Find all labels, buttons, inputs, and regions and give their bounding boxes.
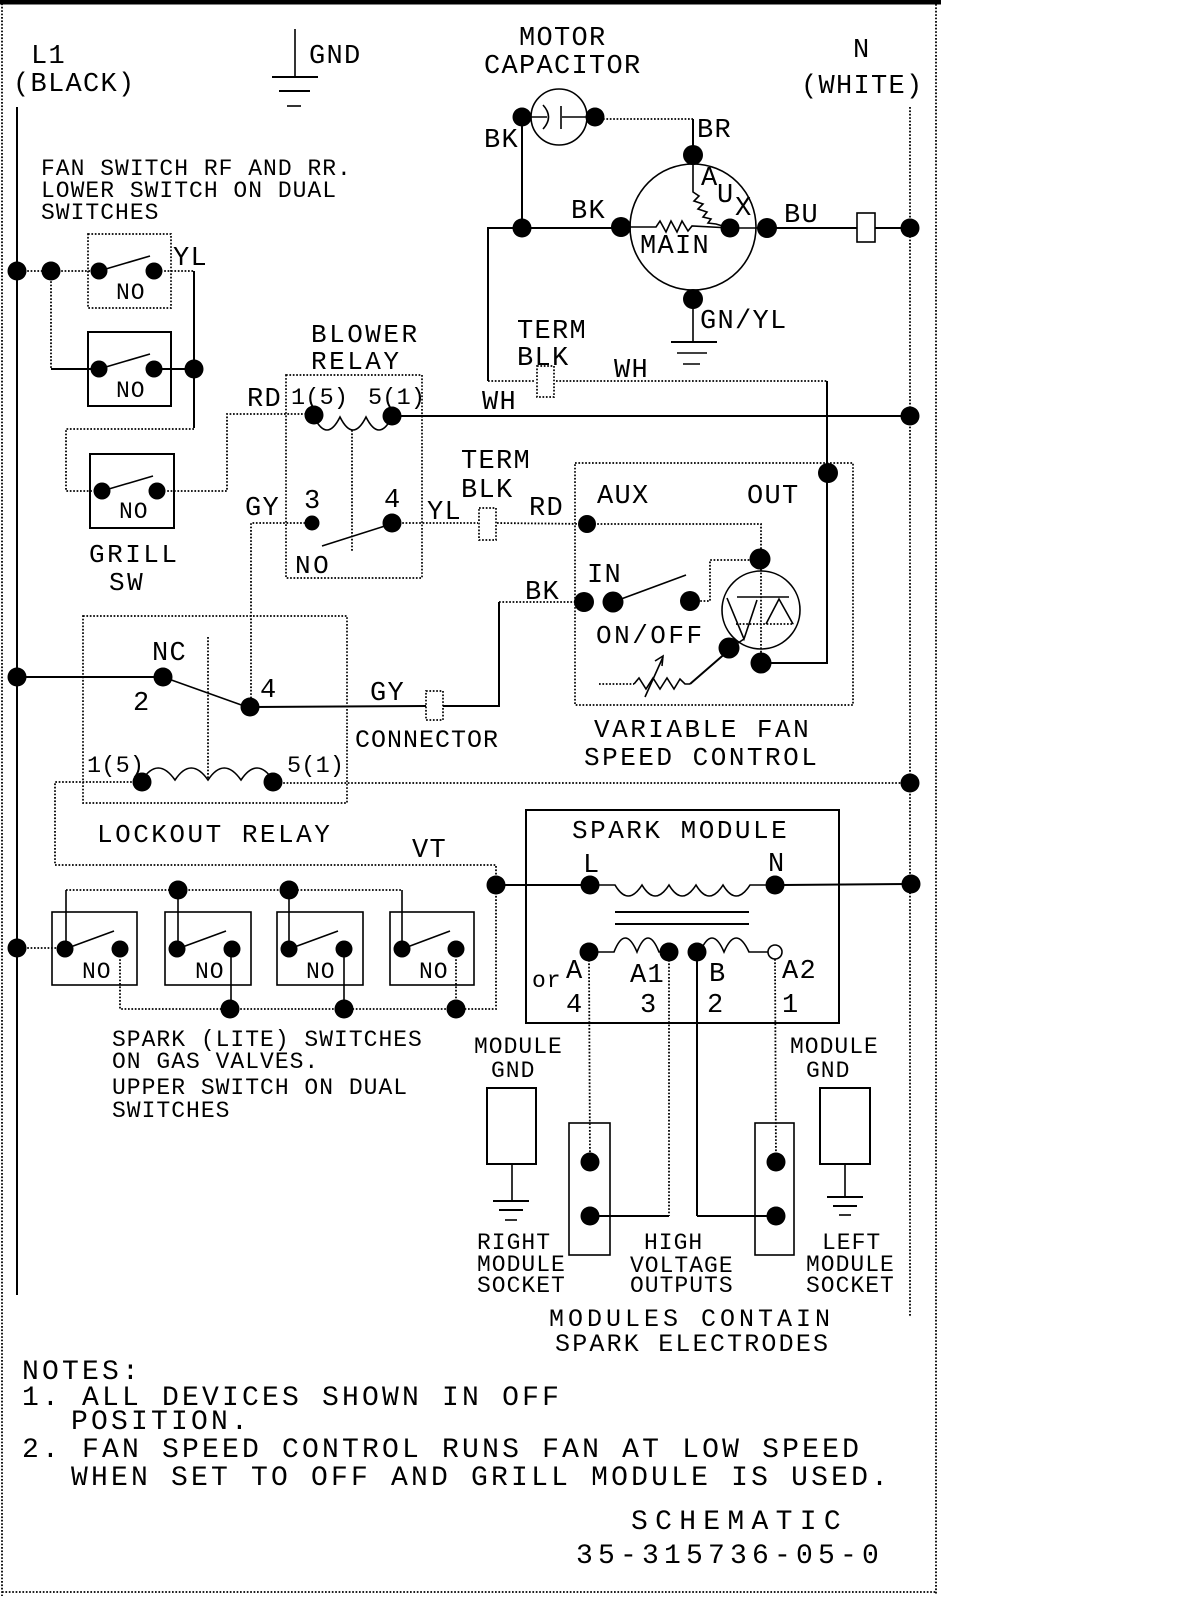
wire rail drop to switch 2 <box>177 890 179 949</box>
svg-text:3: 3 <box>304 487 322 517</box>
potentiometer R1 lead <box>599 683 634 685</box>
node S1 right terminal <box>146 263 163 280</box>
node VT junction spark module <box>487 876 506 895</box>
svg-text:SWITCHES: SWITCHES <box>41 200 159 226</box>
node triac gate terminal <box>719 638 740 659</box>
wire pin A1 down <box>668 960 670 1216</box>
svg-text:(WHITE): (WHITE) <box>801 72 924 102</box>
wire BK junction left and down to term blk <box>488 228 522 381</box>
svg-text:SW: SW <box>109 568 145 598</box>
node pin A <box>580 943 599 962</box>
svg-text:2: 2 <box>707 991 725 1021</box>
wire N vertical bus <box>909 107 911 1316</box>
svg-text:SCHEMATIC: SCHEMATIC <box>631 1507 848 1538</box>
wire BK in <box>499 601 585 603</box>
svg-text:NO: NO <box>419 959 449 985</box>
node N bus junction spark module <box>902 875 921 894</box>
svg-text:NO: NO <box>119 499 149 525</box>
wire WH from pin 5(1) to N bus <box>392 415 910 417</box>
node rail junction 3 <box>280 881 299 900</box>
svg-text:VT: VT <box>412 836 447 866</box>
wire lockout 5(1) to N bus <box>273 782 910 784</box>
svg-text:SPEED CONTROL: SPEED CONTROL <box>584 743 819 773</box>
switch S7 spark switch 4 box <box>390 912 474 985</box>
svg-text:B: B <box>709 960 727 990</box>
svg-text:4: 4 <box>260 676 278 706</box>
potentiometer arrow <box>645 657 663 697</box>
svg-text:BK: BK <box>484 126 519 156</box>
node lockout coil pin 5(1) <box>264 773 283 792</box>
inductor blower relay coil <box>314 417 392 430</box>
svg-text:BLK: BLK <box>517 344 570 374</box>
inductor spark module primary <box>590 885 767 896</box>
svg-text:GN/YL: GN/YL <box>700 307 788 337</box>
svg-text:2. FAN SPEED CONTROL RUNS FAN: 2. FAN SPEED CONTROL RUNS FAN AT LOW SPE… <box>22 1435 862 1466</box>
resistor MAIN winding <box>621 221 730 232</box>
inductor secondary left <box>597 938 669 952</box>
node S7 left terminal <box>394 941 411 958</box>
triac triangle right <box>766 599 793 624</box>
node pin A1 <box>660 943 679 962</box>
svg-text:or: or <box>532 968 562 994</box>
svg-text:BLOWER: BLOWER <box>311 320 420 350</box>
node branch junction <box>42 262 61 281</box>
wire BR corner down to motor <box>692 119 694 150</box>
wire motor frame to ground <box>692 306 694 341</box>
wire motor BU to resistor plug <box>767 227 857 229</box>
node left socket upper pin <box>767 1153 786 1172</box>
relay K2 lockout relay box <box>83 616 347 803</box>
node right socket lower pin <box>581 1207 600 1226</box>
svg-text:SOCKET: SOCKET <box>806 1273 895 1299</box>
node AUX terminal <box>578 515 596 533</box>
node blower pin 4 <box>383 514 402 533</box>
node S4 left terminal <box>57 941 74 958</box>
svg-text:WH: WH <box>482 388 517 418</box>
svg-text:BK: BK <box>525 578 560 608</box>
node S3 left terminal <box>94 483 111 500</box>
wire L1 to spark switch 1 <box>17 947 65 949</box>
node spark module N pin <box>766 876 785 895</box>
wire blower armature link <box>351 430 353 552</box>
wire pin B down <box>696 960 698 1216</box>
wire S6 lever <box>289 931 338 949</box>
wire lockout lever <box>163 677 247 707</box>
node S2 right terminal <box>146 361 163 378</box>
wire RD term blk to AUX <box>497 523 587 524</box>
svg-text:MAIN: MAIN <box>640 232 710 262</box>
node S5 left terminal <box>169 941 186 958</box>
wire pot to gate <box>690 651 728 684</box>
node lockout coil pin 1(5) <box>133 773 152 792</box>
wire BK junction to motor MAIN <box>522 227 621 229</box>
inductor secondary right <box>697 938 768 952</box>
svg-text:4: 4 <box>566 991 584 1021</box>
svg-text:GND: GND <box>491 1058 535 1084</box>
wire rail drop to switch 3 <box>288 890 290 949</box>
node capacitor right terminal <box>586 108 605 127</box>
socket left module socket box <box>755 1123 794 1255</box>
wire L1 to fan switch 1 <box>17 270 99 272</box>
inductor lockout relay coil <box>142 768 273 780</box>
wire spark output rail <box>120 885 496 1009</box>
wire triac gate <box>729 639 744 649</box>
svg-text:NO: NO <box>295 551 331 581</box>
svg-text:POSITION.: POSITION. <box>71 1407 251 1438</box>
svg-text:GND: GND <box>309 42 362 72</box>
svg-text:GY: GY <box>370 679 405 709</box>
wire triac bottom to OUT <box>761 473 827 663</box>
svg-text:GY: GY <box>245 494 280 524</box>
node spark module L pin <box>581 876 600 895</box>
wire lockout armature link <box>207 637 209 780</box>
switch S6 spark switch 3 box <box>277 912 363 985</box>
svg-text:U: U <box>717 181 735 211</box>
capacitor C1 motor capacitor <box>531 89 587 145</box>
page border right <box>935 4 937 1594</box>
svg-text:GRILL: GRILL <box>89 540 180 570</box>
wire S1 out to YL corner <box>154 270 194 272</box>
node output rail junction 2 <box>221 1000 240 1019</box>
wire VT from lockout 1(5) <box>55 782 496 885</box>
wire S2 lever <box>99 354 150 369</box>
ground right module ground <box>827 1196 863 1198</box>
node right socket upper pin <box>581 1153 600 1172</box>
wire connector up to speed control IN <box>443 602 499 706</box>
node L1 junction spark row <box>8 939 27 958</box>
node S2 left terminal <box>91 361 108 378</box>
svg-text:ON/OFF: ON/OFF <box>596 621 705 651</box>
node output rail junction 4 <box>447 1000 466 1019</box>
node S7 right terminal <box>448 941 465 958</box>
node L1 junction upper <box>8 262 27 281</box>
wire A1 to right socket lower pin <box>598 1215 669 1217</box>
wire right plate to ground <box>844 1164 846 1196</box>
wire pin A down to right socket <box>589 960 590 1162</box>
node left socket lower pin <box>767 1207 786 1226</box>
wire S1 lever <box>99 256 150 271</box>
module-gnd right plate <box>820 1088 870 1164</box>
wire grill switch to blower relay RD <box>157 414 314 491</box>
connector BU inline plug <box>857 213 875 242</box>
node OUT terminal <box>818 463 838 483</box>
wire YL junction down and around to grill switch <box>193 369 195 428</box>
node lockout pin 4 <box>241 698 260 717</box>
switch S3 grill switch box <box>90 454 174 528</box>
svg-text:RELAY: RELAY <box>311 347 402 377</box>
node triac top terminal <box>750 549 771 570</box>
svg-text:BU: BU <box>784 201 819 231</box>
svg-text:BK: BK <box>571 197 606 227</box>
wire OUT feed down <box>826 381 828 470</box>
svg-text:A1: A1 <box>630 961 665 991</box>
svg-text:VARIABLE FAN: VARIABLE FAN <box>594 715 811 745</box>
svg-text:A2: A2 <box>782 957 817 987</box>
wire L1 to NC contact <box>17 676 163 678</box>
wire S5 drop <box>230 949 232 1009</box>
wire N pin to N bus <box>783 884 910 885</box>
svg-text:N: N <box>768 850 786 880</box>
svg-text:OUT: OUT <box>747 482 800 512</box>
triac bar upper <box>737 596 789 598</box>
svg-text:(BLACK): (BLACK) <box>13 70 136 100</box>
switch S2 fan switch lower box <box>88 332 171 406</box>
motor M1 fan motor circle <box>630 164 756 290</box>
node S4 right terminal <box>112 941 129 958</box>
wire left plate to ground <box>511 1164 513 1200</box>
resistor AUX winding <box>693 163 726 227</box>
wire B to left socket lower pin <box>697 1215 768 1217</box>
node pin B <box>688 943 707 962</box>
wire AUX to triac top <box>587 524 761 556</box>
transformer core lines <box>615 911 749 913</box>
module-gnd left plate <box>487 1088 536 1164</box>
node S5 right terminal <box>224 941 241 958</box>
svg-text:GND: GND <box>806 1058 850 1084</box>
wire S7 lever <box>402 931 450 949</box>
wire triac center link <box>760 559 762 662</box>
potentiometer R1 zigzag <box>634 678 690 689</box>
svg-text:MOTOR: MOTOR <box>519 24 607 54</box>
svg-text:4: 4 <box>384 486 402 516</box>
svg-text:X: X <box>735 194 753 224</box>
wire L1 vertical bus <box>16 107 18 1295</box>
switch S4 spark switch 1 box <box>52 912 137 985</box>
svg-text:AUX: AUX <box>597 482 650 512</box>
svg-text:IN: IN <box>587 561 622 591</box>
wire contact to triac top <box>690 560 757 601</box>
node blower pin 3 <box>305 516 320 531</box>
svg-text:WHEN SET TO OFF AND GRILL MODU: WHEN SET TO OFF AND GRILL MODULE IS USED… <box>71 1463 891 1494</box>
node capacitor left terminal <box>513 108 532 127</box>
wire S7 drop <box>455 949 457 1009</box>
control U1 variable fan speed control box <box>575 463 853 705</box>
triac bar lower <box>736 623 794 625</box>
svg-text:1(5): 1(5) <box>87 753 144 780</box>
node motor BK terminal <box>611 217 631 237</box>
page top bar <box>0 0 941 5</box>
node motor GN/YL terminal <box>683 289 703 309</box>
node S1 left terminal <box>91 263 108 280</box>
svg-text:CONNECTOR: CONNECTOR <box>355 726 499 755</box>
svg-text:CAPACITOR: CAPACITOR <box>484 52 642 82</box>
node IN terminal a <box>574 592 594 612</box>
node IN terminal b <box>603 592 624 613</box>
svg-text:SPARK ELECTRODES: SPARK ELECTRODES <box>555 1330 830 1359</box>
svg-text:SOCKET: SOCKET <box>477 1273 566 1299</box>
page border bottom <box>2 1591 936 1593</box>
node S6 right terminal <box>336 941 353 958</box>
svg-text:ON GAS VALVES.: ON GAS VALVES. <box>112 1049 319 1075</box>
svg-text:2: 2 <box>133 689 151 719</box>
wire S4 lever <box>65 931 114 949</box>
svg-text:N: N <box>853 36 871 66</box>
ground left module ground <box>493 1200 529 1202</box>
wire pin A2 down to left socket <box>775 959 776 1162</box>
module U2 spark module box <box>526 810 839 1023</box>
wire term blk to speed control OUT <box>556 380 827 382</box>
svg-text:1: 1 <box>782 991 800 1021</box>
socket right module socket box <box>569 1123 610 1255</box>
svg-text:35-315736-05-0: 35-315736-05-0 <box>576 1541 884 1572</box>
svg-text:NO: NO <box>82 959 112 985</box>
node N bus junction WH <box>901 407 920 426</box>
svg-text:TERM: TERM <box>461 447 531 477</box>
svg-text:SPARK MODULE: SPARK MODULE <box>572 816 789 846</box>
node motor winding junction <box>721 219 740 238</box>
wire GY from pin3 to lockout pin4 <box>251 523 312 705</box>
node N bus junction at BU <box>901 219 920 238</box>
wire blower contact lever <box>322 525 388 546</box>
node motor BR terminal <box>683 145 703 165</box>
triac Q1 circle <box>722 571 800 649</box>
relay K1 blower relay box <box>286 375 422 578</box>
node blower coil pin 5(1) <box>383 407 402 426</box>
node L1 junction lockout <box>8 668 27 687</box>
wire S5 lever <box>177 931 226 949</box>
wire VT junction to spark module L <box>496 884 590 886</box>
wire spark feed rail <box>66 889 402 891</box>
wire GY pin4 out to connector <box>250 706 426 707</box>
node blower coil pin 1(5) <box>305 406 324 425</box>
svg-text:SWITCHES: SWITCHES <box>112 1098 230 1124</box>
triac triangle left <box>727 598 757 639</box>
wire BK into upper term blk <box>488 380 535 382</box>
svg-text:L1: L1 <box>31 42 66 72</box>
switch S1 fan switch upper box <box>88 234 171 308</box>
svg-text:NO: NO <box>116 378 146 404</box>
node rail junction 2 <box>169 881 188 900</box>
svg-text:TERM: TERM <box>517 317 587 347</box>
wire S6 drop <box>343 949 345 1009</box>
node S3 right terminal <box>149 483 166 500</box>
node pin A2 open circle <box>768 945 782 959</box>
wire S3 lever <box>102 476 153 491</box>
svg-text:RD: RD <box>247 385 282 415</box>
node motor BU terminal <box>757 218 777 238</box>
wire capacitor to BR corner <box>603 118 693 120</box>
node triac bottom terminal <box>751 653 772 674</box>
terminal-block lower TERM BLK <box>479 508 496 540</box>
page border left <box>1 0 3 1596</box>
svg-text:A: A <box>566 957 584 987</box>
terminal-block upper TERM BLK <box>537 366 554 397</box>
svg-text:NC: NC <box>152 639 187 669</box>
node N bus junction lockout <box>901 774 920 793</box>
svg-text:5(1): 5(1) <box>287 753 344 780</box>
svg-text:LOCKOUT RELAY: LOCKOUT RELAY <box>97 820 332 850</box>
svg-text:A: A <box>701 164 719 194</box>
wire YL pin4 to lower term blk <box>392 522 478 524</box>
svg-text:MODULE: MODULE <box>790 1034 879 1060</box>
wire branch down to fan switch 2 <box>50 271 52 369</box>
svg-text:3: 3 <box>640 991 658 1021</box>
node output rail junction 3 <box>335 1000 354 1019</box>
svg-text:MODULE: MODULE <box>474 1034 563 1060</box>
node on/off right contact <box>680 591 700 611</box>
wire YL vertical <box>193 271 195 369</box>
wire into fan switch 2 <box>51 368 99 370</box>
node S6 left terminal <box>281 941 298 958</box>
node lockout NC contact <box>154 668 173 687</box>
svg-text:BLK: BLK <box>461 476 514 506</box>
wire on/off switch lever <box>613 575 686 602</box>
svg-text:NO: NO <box>195 959 225 985</box>
connector J1 inline connector <box>426 691 443 720</box>
svg-text:BR: BR <box>697 116 732 146</box>
svg-text:RD: RD <box>529 494 564 524</box>
wire capacitor left down to BK junction <box>521 125 523 228</box>
svg-text:OUTPUTS: OUTPUTS <box>630 1273 734 1299</box>
node BK junction <box>513 219 532 238</box>
switch S5 spark switch 2 box <box>165 912 251 985</box>
ground GND symbol top <box>294 29 296 77</box>
ground motor ground symbol <box>671 341 717 343</box>
svg-text:NO: NO <box>116 280 146 306</box>
wire plug to N bus <box>875 227 910 229</box>
svg-text:NO: NO <box>306 959 336 985</box>
wire S2 out to YL junction <box>154 368 194 370</box>
svg-text:YL: YL <box>173 244 208 274</box>
node YL junction <box>185 360 204 379</box>
